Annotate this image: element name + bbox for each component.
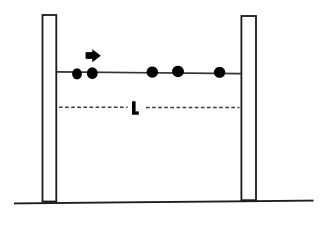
left post [43, 15, 57, 202]
bead 4 [172, 66, 184, 77]
dashed length line left segment [59, 106, 128, 108]
bead 5 [214, 67, 225, 78]
dashed length line right segment [146, 107, 240, 109]
bead 3 [147, 67, 158, 78]
bead 1 [72, 68, 82, 79]
wire [57, 72, 242, 74]
ground line [14, 201, 314, 204]
right post [241, 16, 256, 200]
velocity arrow [86, 49, 101, 62]
bead 2 [87, 67, 98, 79]
label L [132, 101, 139, 115]
